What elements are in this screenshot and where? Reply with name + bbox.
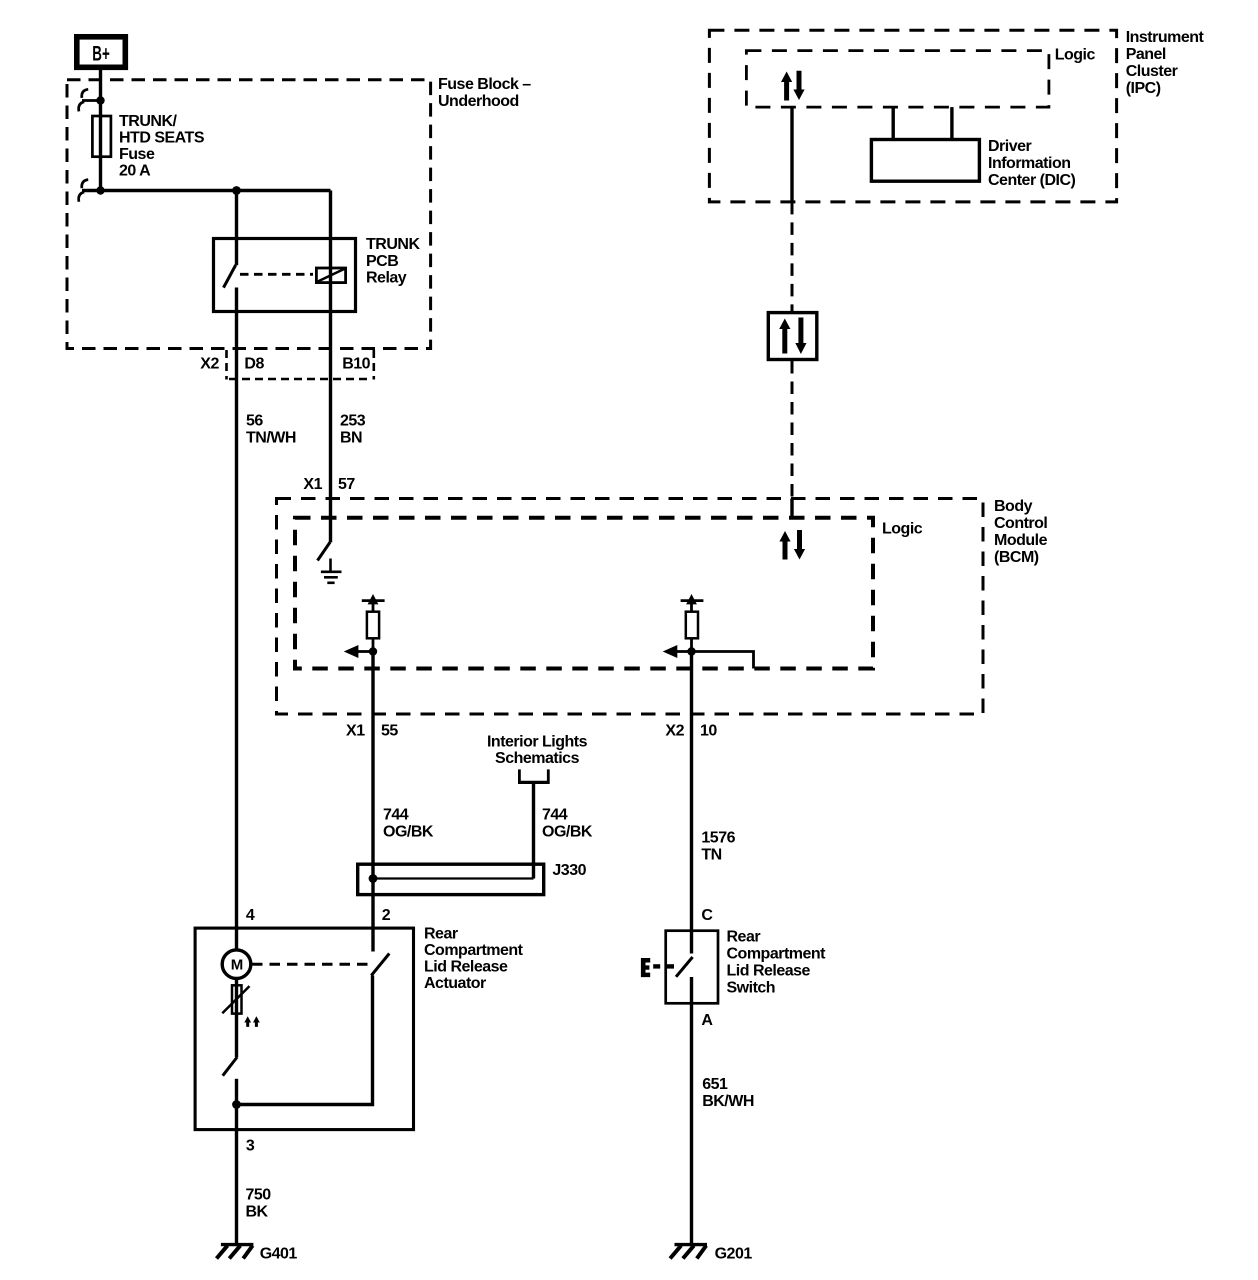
svg-text:2: 2	[382, 907, 391, 924]
svg-text:4: 4	[246, 907, 255, 924]
svg-text:Logic: Logic	[1055, 47, 1096, 64]
wire B+ down to fuse	[99, 67, 102, 191]
svg-text:Module: Module	[994, 532, 1048, 549]
relay switch blade	[224, 265, 236, 288]
svg-text:G201: G201	[715, 1246, 753, 1263]
svg-text:744: 744	[542, 807, 568, 824]
inline connector clip lower	[79, 180, 105, 202]
svg-text:J330: J330	[552, 862, 586, 879]
actuator lower switch blade	[223, 1057, 238, 1076]
J330 bus bar	[373, 877, 534, 879]
gateway serial arrows	[779, 318, 806, 355]
svg-text:TRUNK/: TRUNK/	[119, 113, 177, 130]
svg-text:Fuse: Fuse	[119, 146, 155, 163]
svg-text:55: 55	[381, 723, 398, 740]
svg-text:Lid Release: Lid Release	[727, 963, 811, 980]
serial data wire gateway to BCM dashed	[791, 361, 794, 499]
svg-text:OG/BK: OG/BK	[383, 824, 434, 841]
trunk PCB relay box	[214, 239, 356, 312]
svg-text:X2: X2	[665, 723, 684, 740]
svg-text:X2: X2	[200, 356, 219, 373]
svg-text:Underhood: Underhood	[438, 93, 519, 110]
svg-text:Body: Body	[994, 498, 1033, 515]
rear compartment lid release actuator box	[195, 928, 413, 1130]
svg-text:X1: X1	[346, 723, 365, 740]
BCM serial arrows	[779, 530, 805, 560]
svg-text:G401: G401	[260, 1246, 298, 1263]
svg-text:Control: Control	[994, 515, 1047, 532]
wire 56 TN/WH relay output to actuator	[235, 288, 238, 951]
motor dashed link to switch	[252, 963, 369, 966]
svg-text:56: 56	[246, 413, 263, 430]
relay coil	[316, 268, 345, 283]
svg-text:(IPC): (IPC)	[1126, 80, 1161, 97]
svg-text:PCB: PCB	[366, 253, 398, 270]
svg-text:Schematics: Schematics	[495, 750, 580, 767]
svg-text:TRUNK: TRUNK	[366, 236, 420, 253]
svg-text:Panel: Panel	[1126, 46, 1166, 63]
actuator bottom junction node	[232, 1100, 241, 1109]
svg-text:A: A	[701, 1012, 713, 1029]
svg-text:Compartment: Compartment	[424, 942, 524, 959]
IPC serial data arrows	[781, 71, 805, 101]
junction node relay switch feed	[232, 186, 241, 195]
svg-text:Rear: Rear	[727, 929, 761, 946]
svg-text:BK/WH: BK/WH	[702, 1093, 754, 1110]
serial data wire IPC internal	[790, 108, 793, 202]
svg-text:M: M	[231, 957, 244, 974]
relay actuation dashed link	[240, 273, 313, 276]
svg-text:TN: TN	[701, 847, 721, 864]
svg-text:253: 253	[340, 413, 366, 430]
svg-text:Interior Lights: Interior Lights	[487, 734, 588, 751]
svg-text:57: 57	[338, 476, 355, 493]
BCM driver output 2	[681, 594, 704, 652]
motor to thermal wire	[235, 979, 238, 1058]
fuse TRUNK/HTD SEATS 20A	[92, 116, 111, 157]
battery feed B+ terminal	[77, 37, 126, 68]
connector X2 strip dashes	[227, 350, 374, 380]
svg-text:744: 744	[383, 807, 409, 824]
release switch blade	[676, 957, 693, 977]
motor M	[222, 950, 251, 979]
BCM input switch blade	[318, 542, 331, 561]
driver 2 output arrow and hook	[663, 645, 754, 669]
thermal protector	[222, 985, 249, 1013]
J330 junction node	[369, 874, 378, 883]
DIC stub right	[950, 107, 953, 139]
wire 651 BK/WH switch to G201	[690, 977, 693, 1244]
svg-text:750: 750	[246, 1187, 272, 1204]
BCM logic dashed box	[295, 518, 873, 669]
DIC box	[871, 140, 979, 182]
svg-text:D8: D8	[244, 356, 264, 373]
svg-text:BK: BK	[246, 1204, 269, 1221]
actuator switch to bottom junction wire	[237, 976, 373, 1105]
fuse block underhood dashed box	[67, 80, 431, 349]
svg-text:20 A: 20 A	[119, 163, 151, 180]
interior lights feed bracket	[518, 769, 550, 782]
svg-text:Center (DIC): Center (DIC)	[988, 172, 1076, 189]
BCM internal ground	[321, 559, 342, 583]
IPC logic dashed box	[746, 51, 1049, 108]
svg-text:Information: Information	[988, 155, 1071, 172]
svg-text:Rear: Rear	[424, 926, 458, 943]
wire BCM driver1 to actuator	[371, 652, 374, 952]
J330 splice pack box	[358, 864, 544, 894]
svg-text:Compartment: Compartment	[727, 946, 827, 963]
thermal arrows	[244, 1016, 259, 1027]
svg-text:(BCM): (BCM)	[994, 549, 1039, 566]
BCM outer dashed box	[277, 499, 984, 715]
svg-text:Actuator: Actuator	[424, 975, 486, 992]
wire BCM driver2 to release switch	[690, 652, 693, 954]
driver 1 output arrow	[344, 645, 377, 658]
svg-text:Switch: Switch	[727, 980, 776, 997]
serial data wire IPC to gateway dashed	[791, 202, 794, 311]
svg-text:Driver: Driver	[988, 138, 1032, 155]
rear compartment lid release switch box	[666, 931, 718, 1004]
svg-text:Cluster: Cluster	[1126, 63, 1178, 80]
svg-text:TN/WH: TN/WH	[246, 430, 296, 447]
svg-text:651: 651	[702, 1076, 728, 1093]
wire down to relay switch contact	[235, 191, 238, 266]
BCM driver output 1	[362, 594, 385, 652]
svg-text:Lid Release: Lid Release	[424, 959, 508, 976]
svg-text:C: C	[701, 907, 713, 924]
svg-text:Logic: Logic	[882, 521, 923, 538]
actuator switch blade	[371, 954, 389, 976]
E linkage dashes	[653, 964, 674, 968]
svg-text:HTD SEATS: HTD SEATS	[119, 130, 205, 147]
serial data wire BCM entry	[790, 499, 793, 518]
IPC dashed box	[709, 30, 1116, 202]
release switch manual E symbol	[641, 958, 650, 977]
ground G401	[217, 1245, 254, 1259]
wire 750 BK actuator to G401	[235, 1105, 238, 1244]
lower contact stub	[235, 1079, 238, 1105]
DIC stub left	[892, 107, 895, 139]
wire bracket to J330	[532, 782, 535, 878]
gateway box	[768, 313, 817, 360]
svg-text:BN: BN	[340, 430, 362, 447]
inline connector clip upper	[79, 89, 105, 111]
svg-text:Fuse Block –: Fuse Block –	[438, 76, 531, 93]
svg-text:1576: 1576	[701, 830, 735, 847]
svg-text:Instrument: Instrument	[1126, 29, 1205, 46]
svg-text:B+: B+	[92, 43, 110, 66]
ground G201	[670, 1245, 707, 1259]
svg-text:OG/BK: OG/BK	[542, 824, 593, 841]
wire 253 BN relay coil to BCM	[329, 191, 332, 543]
svg-text:X1: X1	[303, 476, 322, 493]
wire fuse output horizontal	[82, 189, 331, 192]
svg-text:10: 10	[700, 723, 717, 740]
svg-text:Relay: Relay	[366, 270, 407, 287]
svg-text:3: 3	[246, 1138, 255, 1155]
svg-text:B10: B10	[342, 356, 370, 373]
